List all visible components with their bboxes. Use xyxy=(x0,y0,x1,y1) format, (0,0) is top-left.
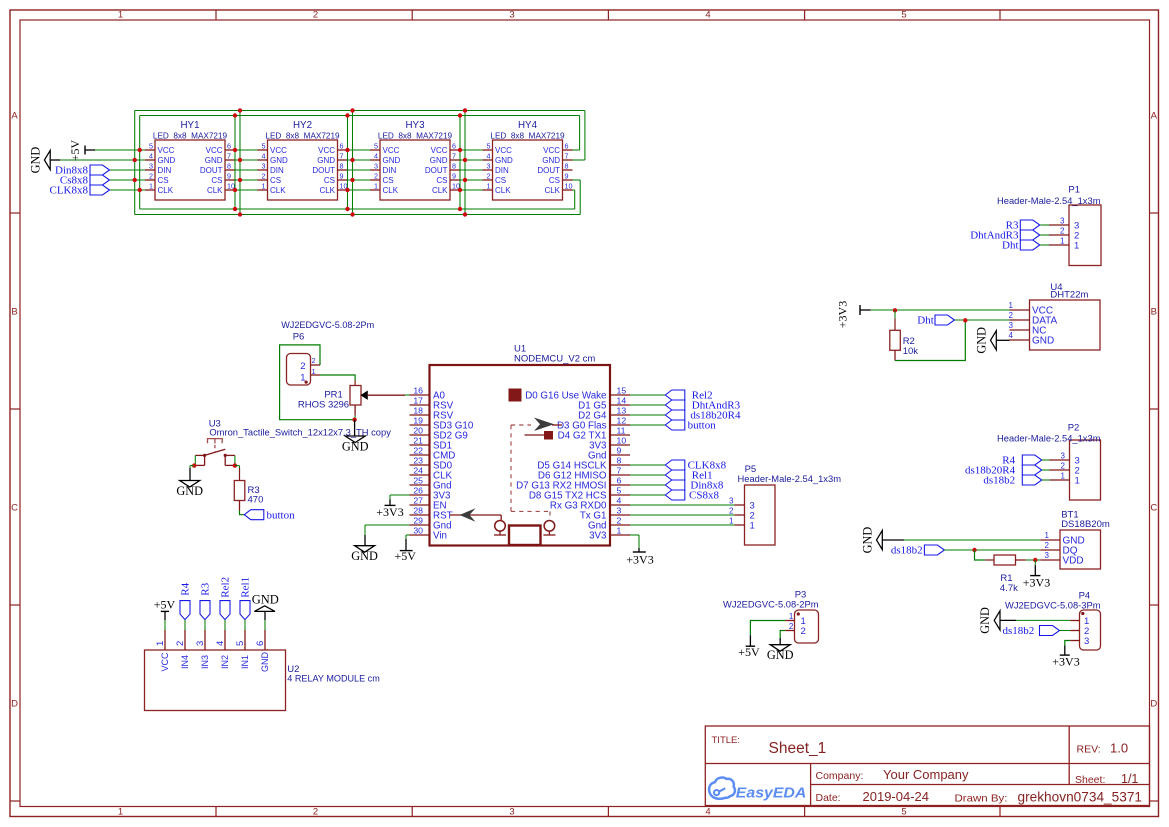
title block grid xyxy=(705,726,1149,806)
svg-text:10: 10 xyxy=(565,182,573,191)
resistor R2 10k xyxy=(890,310,918,360)
resistor R1 4.7k xyxy=(985,555,1026,594)
U1 RST arrow to reset button xyxy=(450,508,501,521)
net label Cs8x8 xyxy=(60,175,110,187)
svg-text:1: 1 xyxy=(750,520,755,531)
wire P6 pin1 to PR1 top xyxy=(320,375,355,381)
svg-text:6: 6 xyxy=(340,142,344,151)
ground flag at P3 xyxy=(767,638,794,662)
wire U3 left terminal loop xyxy=(194,455,196,465)
svg-text:DOUT: DOUT xyxy=(312,166,335,175)
connector P5 Header-Male xyxy=(729,464,841,545)
svg-text:6: 6 xyxy=(565,142,569,151)
wire inter-chip vertical B1 xyxy=(239,111,241,215)
svg-text:+5V: +5V xyxy=(68,139,82,161)
svg-text:7: 7 xyxy=(340,152,344,161)
wire VCC top rail xyxy=(140,115,580,117)
svg-text:GND: GND xyxy=(28,147,42,174)
svg-text:GND: GND xyxy=(351,549,378,563)
svg-text:A: A xyxy=(11,110,18,121)
svg-text:P1: P1 xyxy=(1068,185,1080,196)
wire CS row xyxy=(110,179,580,181)
svg-text:3: 3 xyxy=(1084,636,1089,647)
svg-text:CLK: CLK xyxy=(432,186,448,195)
U1 D0 square marker xyxy=(509,389,521,401)
svg-text:3V3: 3V3 xyxy=(589,530,607,541)
junction dot VDD branch xyxy=(1033,558,1037,562)
svg-text:27: 27 xyxy=(413,495,423,505)
net label DhtAndR3 at P1 xyxy=(970,230,1049,242)
date label xyxy=(816,792,841,804)
svg-text:VCC: VCC xyxy=(495,146,512,155)
svg-text:B: B xyxy=(1151,307,1157,318)
svg-text:1: 1 xyxy=(118,10,123,21)
svg-text:16: 16 xyxy=(413,385,423,395)
svg-text:HY1: HY1 xyxy=(180,120,199,131)
svg-text:24: 24 xyxy=(413,465,423,475)
svg-text:3: 3 xyxy=(149,162,153,171)
junction dot U3 right xyxy=(233,463,237,467)
svg-text:4: 4 xyxy=(262,152,266,161)
svg-text:3: 3 xyxy=(374,162,378,171)
wire right VCC drop xyxy=(579,116,581,151)
junction dot U3 left xyxy=(192,463,196,467)
U1 D4 square marker xyxy=(545,432,553,440)
ground flag at P4 pin1 xyxy=(978,607,1016,634)
wire R3 to button label xyxy=(240,511,245,515)
svg-text:4: 4 xyxy=(705,806,710,817)
resistor R3 470 xyxy=(234,468,263,511)
svg-text:6: 6 xyxy=(452,142,456,151)
svg-text:GND: GND xyxy=(430,156,448,165)
svg-text:CLK: CLK xyxy=(544,186,560,195)
svg-text:Header-Male-2.54_1x3m: Header-Male-2.54_1x3m xyxy=(997,196,1101,206)
svg-text:VCC: VCC xyxy=(206,146,223,155)
svg-text:+5V: +5V xyxy=(154,598,176,612)
svg-text:1: 1 xyxy=(789,612,794,621)
svg-text:HY4: HY4 xyxy=(518,120,538,131)
svg-text:3: 3 xyxy=(1045,551,1050,560)
svg-text:3: 3 xyxy=(1061,451,1066,460)
net label ds18b2 at P2 xyxy=(983,475,1049,487)
IC HY4 LED 8x8 MAX7219 xyxy=(483,120,573,200)
svg-text:grekhovn0734_5371: grekhovn0734_5371 xyxy=(1018,789,1143,804)
svg-text:1: 1 xyxy=(312,367,316,376)
wire GND row xyxy=(60,159,585,161)
+5V flag at U1 pin30 xyxy=(394,539,416,563)
svg-text:7: 7 xyxy=(617,465,622,475)
wire U1 pin29 to GND xyxy=(365,525,410,535)
svg-text:Header-Male-2.54_1x3m: Header-Male-2.54_1x3m xyxy=(997,434,1101,444)
rev label xyxy=(1077,744,1101,756)
junction dot DATA xyxy=(963,318,967,322)
svg-text:9: 9 xyxy=(452,172,456,181)
svg-text:14: 14 xyxy=(617,395,627,405)
svg-text:9: 9 xyxy=(617,445,622,455)
ruler letters left xyxy=(11,110,18,709)
+3V3 flag below U1 pin1 xyxy=(626,548,653,566)
svg-text:470: 470 xyxy=(248,495,264,506)
svg-text:VCC: VCC xyxy=(383,146,400,155)
svg-text:GND: GND xyxy=(542,156,560,165)
svg-text:2: 2 xyxy=(374,172,378,181)
module U2 4 RELAY MODULE xyxy=(145,630,380,711)
svg-text:1: 1 xyxy=(155,641,166,646)
U1 dashed flash-button path xyxy=(511,425,550,518)
connector P2 Header-Male xyxy=(997,423,1101,501)
svg-text:5: 5 xyxy=(235,641,246,646)
svg-text:DIN: DIN xyxy=(270,166,284,175)
svg-text:CS: CS xyxy=(383,176,394,185)
svg-text:12: 12 xyxy=(617,415,627,425)
potentiometer PR1 RHOS 3296 xyxy=(298,381,405,416)
svg-text:CS: CS xyxy=(270,176,281,185)
svg-text:ds18b2: ds18b2 xyxy=(891,545,923,557)
wire right CS rise xyxy=(579,180,581,215)
svg-text:2: 2 xyxy=(1060,226,1065,235)
svg-text:ds18b2: ds18b2 xyxy=(1003,625,1035,637)
svg-text:Omron_Tactile_Switch_12x12x7.3: Omron_Tactile_Switch_12x12x7.3_TH copy xyxy=(209,428,391,439)
ground flag below PR1 xyxy=(342,420,369,454)
svg-text:+3V3: +3V3 xyxy=(376,505,403,519)
svg-text:C: C xyxy=(1150,503,1157,514)
svg-text:2: 2 xyxy=(149,172,153,181)
+3V3 flag at P4 xyxy=(1052,646,1079,669)
svg-text:2: 2 xyxy=(312,356,316,365)
junction dots HY bus xyxy=(133,108,468,216)
svg-text:GND: GND xyxy=(252,593,279,607)
svg-text:VDD: VDD xyxy=(1063,556,1084,567)
switch U3 Omron tactile xyxy=(195,419,391,466)
svg-text:20: 20 xyxy=(413,425,423,435)
svg-text:R3: R3 xyxy=(200,582,212,595)
svg-text:WJ2EDGVC-5.08-2Pm: WJ2EDGVC-5.08-2Pm xyxy=(723,599,819,610)
svg-text:WJ2EDGVC-5.08-3Pm: WJ2EDGVC-5.08-3Pm xyxy=(1005,601,1101,612)
svg-text:1: 1 xyxy=(729,516,734,525)
svg-text:Date:: Date: xyxy=(816,792,841,804)
svg-text:LED 8x8 MAX7219: LED 8x8 MAX7219 xyxy=(378,131,453,140)
svg-text:VCC: VCC xyxy=(270,146,287,155)
svg-text:5: 5 xyxy=(262,142,266,151)
svg-text:3: 3 xyxy=(509,806,514,817)
IC HY2 LED 8x8 MAX7219 xyxy=(258,120,348,200)
drawnby label xyxy=(955,792,1008,804)
net label Rel1 at U2 pin5 xyxy=(240,577,252,630)
svg-text:29: 29 xyxy=(413,515,423,525)
svg-text:13: 13 xyxy=(617,405,627,415)
svg-text:DIN: DIN xyxy=(158,166,172,175)
wire DIN daisy chain row xyxy=(110,169,483,171)
net label R3 at P1 xyxy=(1006,220,1049,232)
wire U3 right to R3 xyxy=(235,466,240,471)
svg-text:GND: GND xyxy=(978,607,992,634)
ruler letters right xyxy=(1150,110,1157,709)
svg-text:17: 17 xyxy=(413,395,423,405)
svg-text:EasyEDA: EasyEDA xyxy=(736,784,807,801)
wire CS bottom rail xyxy=(135,214,581,216)
wire inter-chip vertical B2 xyxy=(352,111,354,215)
U1 reset push button xyxy=(494,521,506,536)
wire R1 to VDD xyxy=(1026,559,1041,561)
svg-text:CS8x8: CS8x8 xyxy=(689,490,719,502)
wire U1 pin1 to +3V3 xyxy=(630,535,639,548)
wire CLK row xyxy=(110,189,575,191)
wire P6 pin2 loop to GND junction xyxy=(280,345,355,420)
+5V flag at P3 xyxy=(738,635,760,659)
net label R3 at U2 pin3 xyxy=(200,582,212,630)
wire GND top rail xyxy=(135,110,585,112)
svg-text:GND: GND xyxy=(861,527,875,554)
+3V3 flag at U1 pin26 xyxy=(376,500,403,519)
svg-text:3: 3 xyxy=(487,162,491,171)
sheet title Sheet_1 xyxy=(769,740,827,757)
svg-text:VCC: VCC xyxy=(431,146,448,155)
svg-text:Drawn By:: Drawn By: xyxy=(955,792,1008,804)
svg-text:2019-04-24: 2019-04-24 xyxy=(863,789,930,804)
ground flag at U2 pin6 xyxy=(252,593,279,630)
svg-text:1/1: 1/1 xyxy=(1121,772,1138,786)
svg-text:30: 30 xyxy=(413,525,423,535)
net label button at R3 xyxy=(244,509,295,521)
wire GND to P4 pin1 xyxy=(1016,619,1070,621)
connector P6 WJ2EDGVC-5.08-2Pm xyxy=(281,320,374,385)
svg-text:button: button xyxy=(267,509,296,521)
svg-text:WJ2EDGVC-5.08-2Pm: WJ2EDGVC-5.08-2Pm xyxy=(281,320,374,331)
svg-text:8: 8 xyxy=(227,162,231,171)
svg-text:VCC: VCC xyxy=(158,146,175,155)
sheet value 1/1 xyxy=(1121,772,1138,786)
IC HY3 LED 8x8 MAX7219 xyxy=(370,120,460,200)
rev value 1.0 xyxy=(1110,741,1128,756)
svg-text:+5V: +5V xyxy=(394,549,416,563)
svg-text:GND: GND xyxy=(205,156,223,165)
svg-text:GND: GND xyxy=(495,156,513,165)
svg-text:2: 2 xyxy=(313,10,318,21)
svg-text:2: 2 xyxy=(313,806,318,817)
wire U1 pin30 to +5V xyxy=(406,535,410,539)
svg-text:HY2: HY2 xyxy=(293,120,312,131)
net label Rel2 at U2 pin4 xyxy=(220,577,232,630)
svg-text:1: 1 xyxy=(262,182,266,191)
svg-text:8: 8 xyxy=(617,455,622,465)
svg-text:C: C xyxy=(11,503,18,514)
ruler ticks bottom xyxy=(216,807,1000,817)
net label ds18b20R4 at P2 xyxy=(965,465,1050,477)
svg-text:Rel2: Rel2 xyxy=(220,577,232,598)
svg-text:ds18b2: ds18b2 xyxy=(983,475,1015,487)
svg-text:6: 6 xyxy=(255,641,266,646)
svg-text:1: 1 xyxy=(617,525,622,535)
svg-text:Your Company: Your Company xyxy=(883,767,969,782)
ground flag at U1 pin29 xyxy=(351,535,378,563)
+3V3 flag below R1 xyxy=(1023,560,1050,590)
wire left outer vertical xyxy=(134,111,136,215)
svg-text:1: 1 xyxy=(487,182,491,191)
svg-text:DOUT: DOUT xyxy=(537,166,560,175)
svg-text:3: 3 xyxy=(195,641,206,646)
svg-text:1: 1 xyxy=(1061,471,1066,480)
svg-text:3: 3 xyxy=(617,505,622,515)
svg-text:DOUT: DOUT xyxy=(425,166,448,175)
svg-text:B: B xyxy=(11,307,17,318)
+5V flag left of HY1 xyxy=(68,139,95,161)
title label xyxy=(712,735,741,746)
svg-text:1: 1 xyxy=(1045,531,1050,540)
connector P4 WJ2EDGVC-5.08-3Pm xyxy=(1005,591,1101,651)
wire left inner vertical xyxy=(139,116,141,210)
wire R2 bottom to DATA xyxy=(895,320,965,360)
wire P3 pin2 to GND xyxy=(780,631,785,639)
svg-text:4.7k: 4.7k xyxy=(1000,583,1018,594)
svg-text:Rel1: Rel1 xyxy=(240,577,252,598)
svg-text:2: 2 xyxy=(729,506,734,515)
ruler ticks top xyxy=(216,10,1000,20)
company value xyxy=(883,767,969,782)
svg-text:CLK: CLK xyxy=(495,186,511,195)
svg-text:+3V3: +3V3 xyxy=(1052,655,1079,669)
svg-text:1: 1 xyxy=(118,806,123,817)
svg-text:2: 2 xyxy=(175,641,186,646)
svg-text:1: 1 xyxy=(374,182,378,191)
svg-text:1.0: 1.0 xyxy=(1110,741,1128,756)
wire U1 to P5 row 505 xyxy=(630,504,735,506)
+5V flag at U2 pin1 xyxy=(154,598,176,631)
+3V3 flag left of U4 xyxy=(836,301,871,328)
U1 D4 line marker xyxy=(525,434,546,436)
svg-text:LED 8x8 MAX7219: LED 8x8 MAX7219 xyxy=(265,131,340,140)
svg-text:CS: CS xyxy=(158,176,169,185)
date value xyxy=(863,789,930,804)
wire PR1 bottom to GND junction xyxy=(354,416,356,420)
svg-text:CS: CS xyxy=(211,176,222,185)
ruler numbers bottom xyxy=(118,806,907,817)
svg-text:15: 15 xyxy=(617,385,627,395)
svg-text:IN4: IN4 xyxy=(180,655,190,669)
svg-text:2: 2 xyxy=(801,626,806,637)
svg-text:DHT22m: DHT22m xyxy=(1050,290,1088,301)
svg-text:CS: CS xyxy=(495,176,506,185)
svg-text:+5V: +5V xyxy=(738,645,760,659)
svg-text:Header-Male-2.54_1x3m: Header-Male-2.54_1x3m xyxy=(738,474,842,484)
svg-text:3: 3 xyxy=(1060,216,1065,225)
svg-text:4: 4 xyxy=(149,152,153,161)
wire P3 pin1 to +5V xyxy=(750,621,785,636)
svg-text:5: 5 xyxy=(617,485,622,495)
svg-text:CLK: CLK xyxy=(270,186,286,195)
svg-text:RHOS 3296: RHOS 3296 xyxy=(298,400,349,411)
svg-text:Company:: Company: xyxy=(816,770,864,782)
ruler numbers top xyxy=(118,10,907,21)
svg-text:4: 4 xyxy=(1009,331,1014,340)
svg-text:4: 4 xyxy=(215,641,226,646)
svg-text:25: 25 xyxy=(413,475,423,485)
svg-text:REV:: REV: xyxy=(1077,744,1101,756)
svg-text:Vin: Vin xyxy=(433,530,447,541)
svg-text:DOUT: DOUT xyxy=(200,166,223,175)
svg-text:A: A xyxy=(1151,110,1158,121)
svg-text:9: 9 xyxy=(227,172,231,181)
connector P1 Header-Male xyxy=(997,185,1101,266)
net label ds18b2 at BT1 xyxy=(891,545,1040,557)
svg-text:DIN: DIN xyxy=(495,166,509,175)
wire U1 to P5 row 515 xyxy=(630,514,735,516)
svg-text:21: 21 xyxy=(413,435,423,445)
svg-text:26: 26 xyxy=(413,485,423,495)
svg-text:2: 2 xyxy=(487,172,491,181)
svg-text:3: 3 xyxy=(729,496,734,505)
wire DQ to R1 xyxy=(975,550,986,560)
svg-text:23: 23 xyxy=(413,455,423,465)
svg-text:CLK8x8: CLK8x8 xyxy=(50,185,89,197)
net label Din8x8 at U1 xyxy=(630,480,724,492)
svg-text:+3V3: +3V3 xyxy=(626,552,653,566)
svg-text:1: 1 xyxy=(1074,240,1079,251)
IC HY1 LED 8x8 MAX7219 xyxy=(145,120,235,200)
net label Dht at P1 xyxy=(1002,240,1049,252)
EasyEDA logo xyxy=(709,778,806,802)
svg-text:D: D xyxy=(11,699,18,710)
company label xyxy=(816,770,864,782)
svg-text:10: 10 xyxy=(617,435,627,445)
svg-text:CLK: CLK xyxy=(158,186,174,195)
svg-text:5: 5 xyxy=(487,142,491,151)
svg-text:8: 8 xyxy=(452,162,456,171)
svg-text:7: 7 xyxy=(227,152,231,161)
wire VCC row xyxy=(95,149,580,151)
net label Dht at U4 xyxy=(917,315,1009,327)
svg-text:GND: GND xyxy=(270,156,288,165)
svg-text:HY3: HY3 xyxy=(405,120,425,131)
svg-text:DIN: DIN xyxy=(383,166,397,175)
wire CLK bottom rail xyxy=(140,208,575,210)
svg-text:6: 6 xyxy=(227,142,231,151)
net label R4 at U2 pin2 xyxy=(180,582,192,630)
ground flag GND left of HY1 xyxy=(28,147,60,174)
svg-text:CLK: CLK xyxy=(383,186,399,195)
svg-text:1: 1 xyxy=(1060,236,1065,245)
svg-text:CLK: CLK xyxy=(207,186,223,195)
net label CLK8x8 at U1 xyxy=(630,460,727,472)
U1 D3 solid line to label xyxy=(552,424,562,426)
net label ds18b2 at P4 xyxy=(1003,625,1071,637)
svg-text:R4: R4 xyxy=(180,582,192,595)
svg-text:4: 4 xyxy=(705,10,710,21)
U1 D3 arrow marker xyxy=(534,418,554,432)
net label Rel1 at U1 xyxy=(630,470,713,482)
svg-text:19: 19 xyxy=(413,415,423,425)
svg-text:28: 28 xyxy=(413,505,423,515)
svg-text:VCC: VCC xyxy=(543,146,560,155)
svg-text:10k: 10k xyxy=(903,346,919,357)
battery/sensor BT1 DS18B20m xyxy=(1040,510,1110,569)
wire right CLK rise xyxy=(574,190,576,209)
ground flag below U3 xyxy=(176,468,203,498)
svg-text:CS: CS xyxy=(324,176,335,185)
svg-text:22: 22 xyxy=(413,445,423,455)
svg-text:1: 1 xyxy=(1009,301,1014,310)
svg-text:3: 3 xyxy=(509,10,514,21)
net label CLK8x8 xyxy=(50,185,110,197)
wire U1 to P5 row 525 xyxy=(630,524,735,526)
svg-text:VCC: VCC xyxy=(318,146,335,155)
svg-text:2: 2 xyxy=(1009,311,1014,320)
wire +3V3 to U4 VCC xyxy=(871,309,1010,311)
svg-text:7: 7 xyxy=(565,152,569,161)
svg-text:IN2: IN2 xyxy=(220,655,230,669)
junction dot PR1-GND xyxy=(352,418,356,422)
wire inter-chip vertical A2 xyxy=(347,116,349,210)
svg-text:8: 8 xyxy=(340,162,344,171)
